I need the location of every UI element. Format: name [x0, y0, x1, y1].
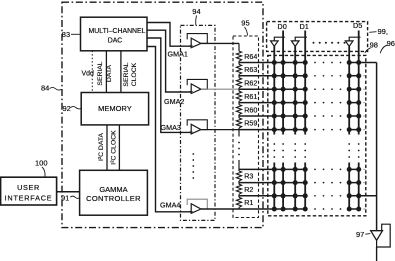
wire DAC to GMA4 [147, 47, 191, 212]
wire DAC to GMA1 [147, 23, 191, 47]
resistor R62 [236, 78, 241, 88]
op-amp GMA3 [191, 124, 201, 134]
svg-text:D5: D5 [353, 21, 362, 30]
buffer D0 (pass buffer) [274, 37, 285, 41]
wire SERIAL CLOCK [120, 51, 122, 93]
resistor R59 [236, 118, 241, 128]
wire D0 column left [273, 46, 275, 209]
resistor R3 [236, 171, 241, 181]
op-amp GMA4 [191, 204, 201, 214]
svg-text:GAMMA: GAMMA [99, 185, 127, 194]
wire tap row 8 [239, 182, 359, 184]
svg-text:I²C DATA: I²C DATA [98, 133, 105, 162]
label 83 [62, 30, 70, 39]
svg-text:84: 84 [41, 84, 49, 93]
svg-text:92: 92 [63, 104, 71, 113]
svg-text:MEMORY: MEMORY [98, 104, 132, 113]
label 92 [63, 104, 71, 113]
label 95 [241, 19, 249, 28]
dashed box 99 (output buffers row) [267, 22, 368, 52]
op-amp GMA1 [191, 38, 201, 48]
node D1 [300, 22, 309, 31]
junction dots (switch matrix) [272, 60, 361, 212]
wire GMA2 out to ladder tap [201, 88, 239, 90]
outer dashed box 84 [62, 2, 263, 227]
wire tap row 1 [239, 62, 377, 64]
wire DAC to GMA3 [147, 38, 191, 132]
svg-text:CLOCK: CLOCK [131, 62, 138, 86]
resistor R1 [236, 197, 241, 207]
svg-text:91: 91 [61, 194, 69, 203]
svg-text:SERIAL: SERIAL [97, 61, 104, 85]
wire D5 column right [358, 31, 360, 210]
op-amp GMA2 [191, 84, 201, 94]
label 97 [356, 230, 364, 239]
svg-text:D0: D0 [277, 22, 286, 31]
wire D1 column right [304, 31, 306, 210]
resistor R61 [236, 91, 241, 101]
svg-text:USER: USER [17, 183, 40, 192]
svg-text:Vdd: Vdd [82, 71, 95, 78]
svg-text:GMA2: GMA2 [164, 97, 184, 106]
wire matrix to output buffer 97 [376, 63, 378, 231]
svg-text:99,: 99, [378, 27, 388, 36]
node D0 [277, 22, 286, 31]
svg-text:R61: R61 [244, 92, 257, 101]
wire tap row 3 [239, 88, 359, 90]
wire GMA1 out to ladder top [201, 42, 239, 44]
svg-text:R59: R59 [244, 119, 257, 128]
svg-text:94: 94 [192, 7, 200, 16]
label 91 [61, 194, 69, 203]
svg-text:GMA3: GMA3 [161, 123, 181, 132]
resistor ladder wire [238, 43, 240, 209]
svg-text:I²C CLOCK: I²C CLOCK [110, 130, 117, 165]
svg-text:GMA4: GMA4 [160, 201, 180, 210]
svg-text:96: 96 [387, 39, 395, 48]
svg-text:R62: R62 [244, 79, 257, 88]
svg-text:INTERFACE: INTERFACE [5, 193, 53, 202]
Vdd line [91, 51, 93, 93]
op-amp 97 (output buffer) [371, 231, 383, 241]
svg-text:R64: R64 [244, 52, 257, 61]
ellipsis (more columns) [313, 42, 346, 44]
label 98 [370, 41, 378, 50]
label Vdd [82, 71, 95, 78]
buffer D5 (pass buffer) [349, 37, 360, 41]
wire tap row 10 [239, 208, 359, 210]
svg-text:D1: D1 [300, 22, 309, 31]
wire GMA4 out to ladder bottom [201, 208, 239, 210]
gamma controller U91 [80, 170, 148, 215]
wire I2C CLOCK [118, 125, 120, 170]
label 94 [192, 7, 200, 16]
wire tap row 9 [239, 195, 377, 197]
svg-text:DAC: DAC [108, 37, 123, 44]
resistor R64 [236, 51, 241, 61]
svg-text:MULTI–CHANNEL: MULTI–CHANNEL [89, 28, 146, 35]
wire DAC to GMA2 [147, 30, 191, 92]
dashed box 98 (switch matrix) [268, 55, 366, 215]
svg-text:R1: R1 [244, 198, 253, 207]
svg-text:R2: R2 [244, 185, 253, 194]
svg-text:GMA1: GMA1 [168, 50, 188, 59]
ellipsis (ladder continues) [238, 142, 240, 156]
wire SERIAL DATA [105, 51, 107, 93]
label 84 [41, 84, 49, 93]
dashed box 94 [181, 25, 216, 220]
wire D0 column right [282, 31, 284, 210]
wire tap row 6 [239, 129, 359, 131]
label 96 [387, 39, 395, 48]
svg-text:DATA: DATA [106, 64, 113, 82]
resistor R63 [236, 64, 241, 74]
dashed box 95 resistor ladder [233, 36, 259, 218]
wire D5 column left [348, 46, 350, 209]
svg-text:R63: R63 [244, 65, 257, 74]
wire tap row 4 [239, 102, 359, 104]
svg-text:R60: R60 [244, 105, 257, 114]
buffer D1 (pass buffer) [295, 37, 307, 41]
svg-text:100: 100 [35, 159, 48, 168]
wire output [376, 247, 378, 261]
wire tap row 5 [239, 115, 359, 117]
label 99 [378, 27, 388, 36]
label 100 [35, 159, 48, 168]
svg-text:R3: R3 [244, 172, 253, 181]
svg-text:83: 83 [62, 30, 70, 39]
resistor R60 [236, 105, 241, 115]
wire D1 column left [294, 46, 296, 209]
svg-text:95: 95 [241, 19, 249, 28]
wire UI to controller [57, 191, 80, 193]
ellipsis (more buffers) [192, 153, 194, 179]
svg-text:SERIAL: SERIAL [123, 62, 130, 86]
wire GMA3 out to ladder tap [201, 129, 239, 131]
resistor R2 [236, 184, 241, 194]
wire I2C DATA [106, 125, 108, 170]
wire tap row 7 [239, 168, 359, 170]
user interface U100 [1, 177, 57, 205]
svg-text:CONTROLLER: CONTROLLER [86, 194, 141, 203]
svg-text:97: 97 [356, 230, 364, 239]
memory U92 [81, 93, 148, 125]
node D5 [353, 21, 362, 30]
svg-text:98: 98 [370, 41, 378, 50]
multi-channel DAC U83 [81, 17, 148, 51]
wire tap row 2 [239, 75, 359, 77]
